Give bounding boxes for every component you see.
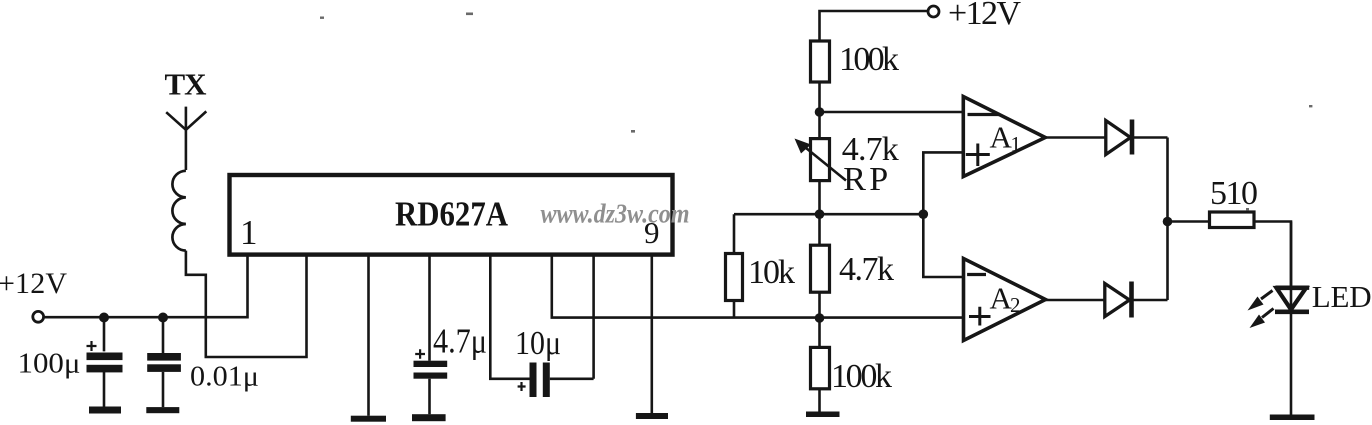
svg-text:100k: 100k — [839, 41, 899, 78]
svg-text:10μ: 10μ — [515, 325, 561, 362]
svg-text:RP: RP — [843, 161, 888, 198]
svg-text:100μ: 100μ — [18, 348, 81, 380]
svg-text:1: 1 — [240, 213, 258, 252]
svg-text:1: 1 — [1011, 132, 1022, 156]
svg-text:+12V: +12V — [0, 267, 67, 300]
svg-text:4.7μ: 4.7μ — [433, 322, 487, 361]
svg-text:4.7k: 4.7k — [839, 251, 894, 288]
svg-text:TX: TX — [165, 67, 208, 102]
svg-text:100k: 100k — [831, 358, 892, 395]
svg-text:+12V: +12V — [948, 0, 1021, 32]
svg-text:RD627A: RD627A — [395, 195, 509, 234]
svg-text:LED: LED — [1312, 279, 1372, 314]
svg-text:A: A — [990, 120, 1013, 155]
svg-text:10k: 10k — [748, 254, 795, 291]
svg-text:2: 2 — [1010, 293, 1021, 317]
svg-text:0.01μ: 0.01μ — [190, 361, 259, 393]
svg-text:www.dz3w.com: www.dz3w.com — [541, 199, 690, 229]
svg-text:510: 510 — [1210, 175, 1258, 212]
